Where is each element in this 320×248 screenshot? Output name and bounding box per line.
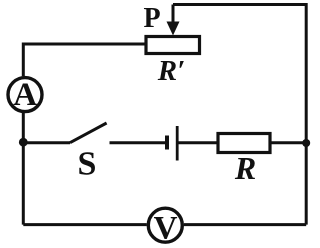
- svg-text:S: S: [78, 146, 97, 183]
- svg-text:V: V: [154, 211, 178, 247]
- svg-text:A: A: [13, 77, 37, 113]
- svg-text:R′: R′: [157, 55, 186, 87]
- svg-text:R: R: [234, 150, 256, 186]
- svg-text:P: P: [143, 3, 160, 34]
